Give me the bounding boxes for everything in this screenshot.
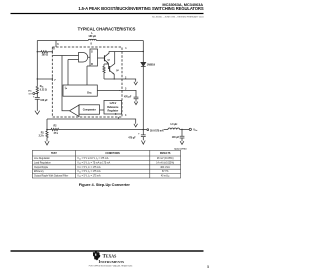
svg-text:VCC = 5 V, IO = 75 mA to 175 m: VCC = 5 V, IO = 75 mA to 175 mA	[77, 161, 110, 164]
svg-text:7: 7	[54, 79, 56, 82]
svg-text:Load Regulation: Load Regulation	[34, 161, 51, 164]
svg-text:VCC: VCC	[28, 90, 32, 92]
svg-text:Ipk: Ipk	[65, 86, 67, 90]
svg-text:470 μF: 470 μF	[128, 137, 136, 140]
svg-text:1N5819: 1N5819	[147, 63, 156, 66]
svg-text:Q2: Q2	[116, 70, 120, 72]
svg-text:TEST: TEST	[51, 153, 57, 155]
svg-text:+: +	[33, 96, 35, 99]
svg-text:Comparator: Comparator	[83, 109, 96, 112]
svg-text:5 V: 5 V	[29, 94, 33, 96]
svg-text:Output Ripple: Output Ripple	[34, 166, 49, 169]
svg-text:5: 5	[207, 265, 209, 269]
svg-text:VCC = 5 V, IO = 175 mA: VCC = 5 V, IO = 175 mA	[77, 170, 101, 173]
svg-text:180 μH: 180 μH	[88, 35, 96, 38]
svg-text:Line Regulation: Line Regulation	[34, 157, 51, 160]
svg-text:0.22 Ω: 0.22 Ω	[40, 89, 47, 92]
svg-text:4: 4	[125, 114, 127, 117]
svg-text:TYPICAL CHARACTERISTICS: TYPICAL CHARACTERISTICS	[78, 27, 136, 32]
svg-text:Osc: Osc	[87, 91, 92, 95]
svg-text:Efficiency: Efficiency	[34, 171, 45, 173]
svg-text:100 μF: 100 μF	[172, 136, 180, 139]
svg-text:R2: R2	[54, 125, 58, 128]
svg-text:Regulator: Regulator	[108, 110, 119, 113]
svg-text:1: 1	[125, 47, 127, 50]
svg-text:470 pF: 470 pF	[124, 95, 132, 98]
svg-text:POST OFFICE BOX 655303 • DALLA: POST OFFICE BOX 655303 • DALLAS, TEXAS 7…	[89, 265, 133, 268]
svg-text:8: 8	[91, 42, 93, 45]
svg-text:VCC = 5 V to 10 V, IO = 175 mA: VCC = 5 V to 10 V, IO = 175 mA	[77, 157, 109, 160]
svg-text:R: R	[91, 62, 93, 66]
svg-text:87.7%: 87.7%	[162, 171, 169, 173]
svg-text:S: S	[91, 50, 93, 54]
svg-text:28 V/175 mA: 28 V/175 mA	[150, 130, 164, 133]
svg-text:2.2 k: 2.2 k	[39, 135, 45, 138]
svg-text:+: +	[138, 133, 140, 136]
svg-text:6: 6	[57, 43, 59, 46]
svg-text:28 mV (±0.05%): 28 mV (±0.05%)	[157, 158, 174, 160]
svg-text:100 μF: 100 μF	[40, 99, 48, 102]
svg-text:SLLS636D – JUNE 1983 – REVISED: SLLS636D – JUNE 1983 – REVISED FEBRUARY …	[152, 16, 204, 19]
svg-text:CONDITIONS: CONDITIONS	[105, 153, 120, 155]
svg-text:VCC = 5 V, IO = 175 mA: VCC = 5 V, IO = 175 mA	[77, 166, 101, 169]
svg-text:1.0 μH: 1.0 μH	[170, 123, 177, 126]
svg-text:1.25-V: 1.25-V	[109, 102, 116, 105]
svg-text:Q1: Q1	[107, 59, 111, 61]
svg-text:Figure 4. Step-Up Converter: Figure 4. Step-Up Converter	[79, 182, 131, 187]
svg-text:RESULTS: RESULTS	[160, 153, 171, 155]
svg-text:INSTRUMENTS: INSTRUMENTS	[99, 259, 125, 264]
svg-text:TEXAS: TEXAS	[103, 254, 117, 259]
svg-text:180 Ω: 180 Ω	[42, 53, 48, 56]
svg-text:Reference: Reference	[107, 106, 119, 109]
svg-text:VOut: VOut	[193, 129, 198, 132]
svg-text:40 mVPP: 40 mVPP	[161, 176, 170, 178]
svg-text:400 mVPP: 400 mVPP	[160, 167, 170, 169]
svg-text:Output Ripple With Optional Fi: Output Ripple With Optional Filter	[34, 175, 68, 178]
svg-text:14 mV (±0.025%): 14 mV (±0.025%)	[156, 162, 174, 164]
svg-text:1.5-A PEAK BOOST/BUCK/INVERTIN: 1.5-A PEAK BOOST/BUCK/INVERTING SWITCHIN…	[78, 6, 203, 11]
svg-text:VCC = 5 V, IO = 175 mA: VCC = 5 V, IO = 175 mA	[77, 175, 101, 178]
svg-text:47 k: 47 k	[54, 132, 59, 135]
svg-text:8: 8	[53, 48, 55, 51]
